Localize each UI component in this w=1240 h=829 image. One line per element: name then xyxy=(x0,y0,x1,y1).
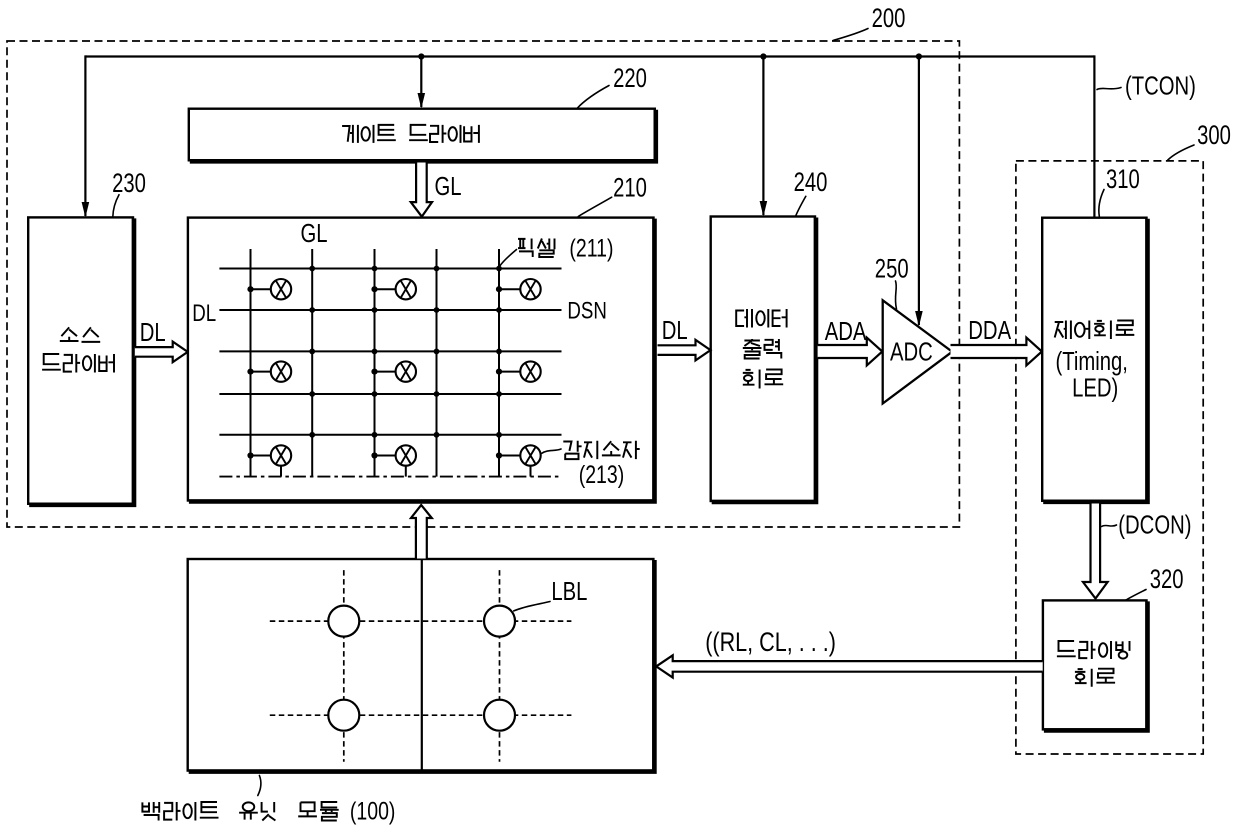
svg-text:200: 200 xyxy=(872,3,906,34)
svg-text:(DCON): (DCON) xyxy=(1118,510,1191,539)
svg-text:DL: DL xyxy=(192,300,216,327)
wire drop to source driver xyxy=(84,55,86,216)
node on bus at ADC branch xyxy=(916,53,922,59)
svg-text:(100): (100) xyxy=(350,797,396,825)
svg-text:LED): LED) xyxy=(1072,373,1118,402)
ADC amplifier triangle 250 xyxy=(883,300,953,403)
svg-text:310: 310 xyxy=(1106,164,1140,195)
svg-text:240: 240 xyxy=(794,167,828,198)
leader tilde for (TCON) xyxy=(1097,88,1121,90)
text 회로 (circuit) in 320 xyxy=(1075,669,1092,687)
text 출력 (output) xyxy=(743,339,762,359)
text 소스 (source) xyxy=(60,327,79,341)
svg-text:LBL: LBL xyxy=(551,576,587,605)
svg-text:DL: DL xyxy=(140,318,166,347)
gate driver box 220 xyxy=(189,109,655,161)
dashed alignment lines in backlight xyxy=(270,620,572,622)
wire drop to data output circuit xyxy=(762,57,764,216)
text 드라이빙 (driving) xyxy=(1057,641,1076,656)
dashed system boundary box 200 xyxy=(7,41,959,527)
svg-text:GL: GL xyxy=(435,172,462,201)
svg-text:300: 300 xyxy=(1197,120,1231,151)
junction dots at line crossings xyxy=(309,266,315,272)
svg-text:DL: DL xyxy=(662,315,688,344)
pixels and sensing elements (circled X) xyxy=(247,286,253,292)
DDA arrow (ADC to control circuit) xyxy=(951,338,1042,366)
svg-text:GL: GL xyxy=(301,218,328,247)
driving circuit box 320 xyxy=(1043,600,1147,729)
svg-text:230: 230 xyxy=(112,168,146,199)
DL arrow (source driver to panel) xyxy=(135,342,188,363)
leader for label 220 xyxy=(577,86,609,109)
dashed backlight-driver boundary box 300 xyxy=(1016,161,1203,754)
svg-text:ADA: ADA xyxy=(825,316,867,345)
gate/sense vertical lines GL in panel xyxy=(250,249,252,477)
wire top control bus xyxy=(85,55,1094,57)
svg-text:ADC: ADC xyxy=(890,337,933,366)
svg-text:250: 250 xyxy=(875,254,909,285)
svg-text:(TCON): (TCON) xyxy=(1125,71,1196,100)
backlight-to-panel up arrow xyxy=(411,505,432,559)
label 감지소자 (sensing element) xyxy=(563,441,581,459)
leader for pixel label xyxy=(500,250,517,267)
DL arrow (panel to data output) xyxy=(658,340,711,361)
text 데이터 (data) xyxy=(736,309,752,328)
text 제어회로 (control circuit) xyxy=(1055,321,1071,340)
leader for label 200 xyxy=(833,29,868,41)
data output circuit box 240 xyxy=(711,217,815,502)
label 픽셀 (pixel) xyxy=(518,239,533,258)
display panel box 210 xyxy=(188,218,654,501)
leader tilde for (DCON) xyxy=(1102,525,1117,527)
text 드라이버 (driver) xyxy=(42,354,61,370)
leader for label 320 xyxy=(1126,590,1146,601)
dash-dot sense boundary line xyxy=(219,476,561,478)
caption 백라이트 유닛 모듈 (backlight unit module) xyxy=(142,802,159,821)
leader for label 310 xyxy=(1099,190,1104,217)
backlight unit module box 100 xyxy=(188,559,654,771)
text 게이트 드라이버 (gate driver) xyxy=(342,125,358,143)
svg-text:(213): (213) xyxy=(579,461,625,489)
arrow into gate driver xyxy=(418,93,426,109)
leader for label 210 xyxy=(578,197,612,216)
backlight lamps LBL xyxy=(328,606,359,637)
RL/CL arrow (driving circuit to backlight) xyxy=(656,655,1042,677)
divider line in backlight module xyxy=(421,559,423,771)
svg-text:220: 220 xyxy=(613,63,647,94)
text 회로 (circuit) xyxy=(743,370,760,389)
leader for sensing element label xyxy=(542,449,562,454)
node on bus at gate driver branch xyxy=(418,53,424,59)
svg-text:DSN: DSN xyxy=(567,297,607,324)
wire drop to ADC xyxy=(918,57,920,326)
svg-text:((RL, CL, . . .): ((RL, CL, . . .) xyxy=(705,628,836,658)
wire drop to gate driver xyxy=(420,57,422,108)
leader for label 250 xyxy=(895,281,896,309)
source driver box 230 xyxy=(28,217,133,503)
horizontal data/sense lines in panel xyxy=(219,268,561,270)
leader for label 240 xyxy=(796,196,806,216)
svg-text:(211): (211) xyxy=(569,234,613,262)
wire TCON down to control circuit 310 xyxy=(1093,55,1095,217)
arrow into source driver xyxy=(82,202,90,218)
node on bus at data output branch xyxy=(760,53,766,59)
svg-text:(Timing,: (Timing, xyxy=(1056,347,1128,376)
arrow into data output circuit xyxy=(760,201,768,217)
arrow into ADC xyxy=(915,311,923,327)
leader for caption 100 xyxy=(258,776,261,796)
GL bus arrow (gate driver to panel) xyxy=(411,163,432,217)
control circuit box 310 xyxy=(1042,218,1146,501)
leader for label 300 xyxy=(1168,145,1194,160)
ADA arrow (data output to ADC) xyxy=(818,338,883,366)
leader for LBL xyxy=(514,602,550,611)
svg-text:210: 210 xyxy=(613,173,647,204)
svg-text:320: 320 xyxy=(1150,564,1184,595)
svg-text:DDA: DDA xyxy=(968,316,1011,345)
leader for label 230 xyxy=(113,195,119,217)
DCON arrow (control to driving circuit) xyxy=(1083,504,1108,599)
